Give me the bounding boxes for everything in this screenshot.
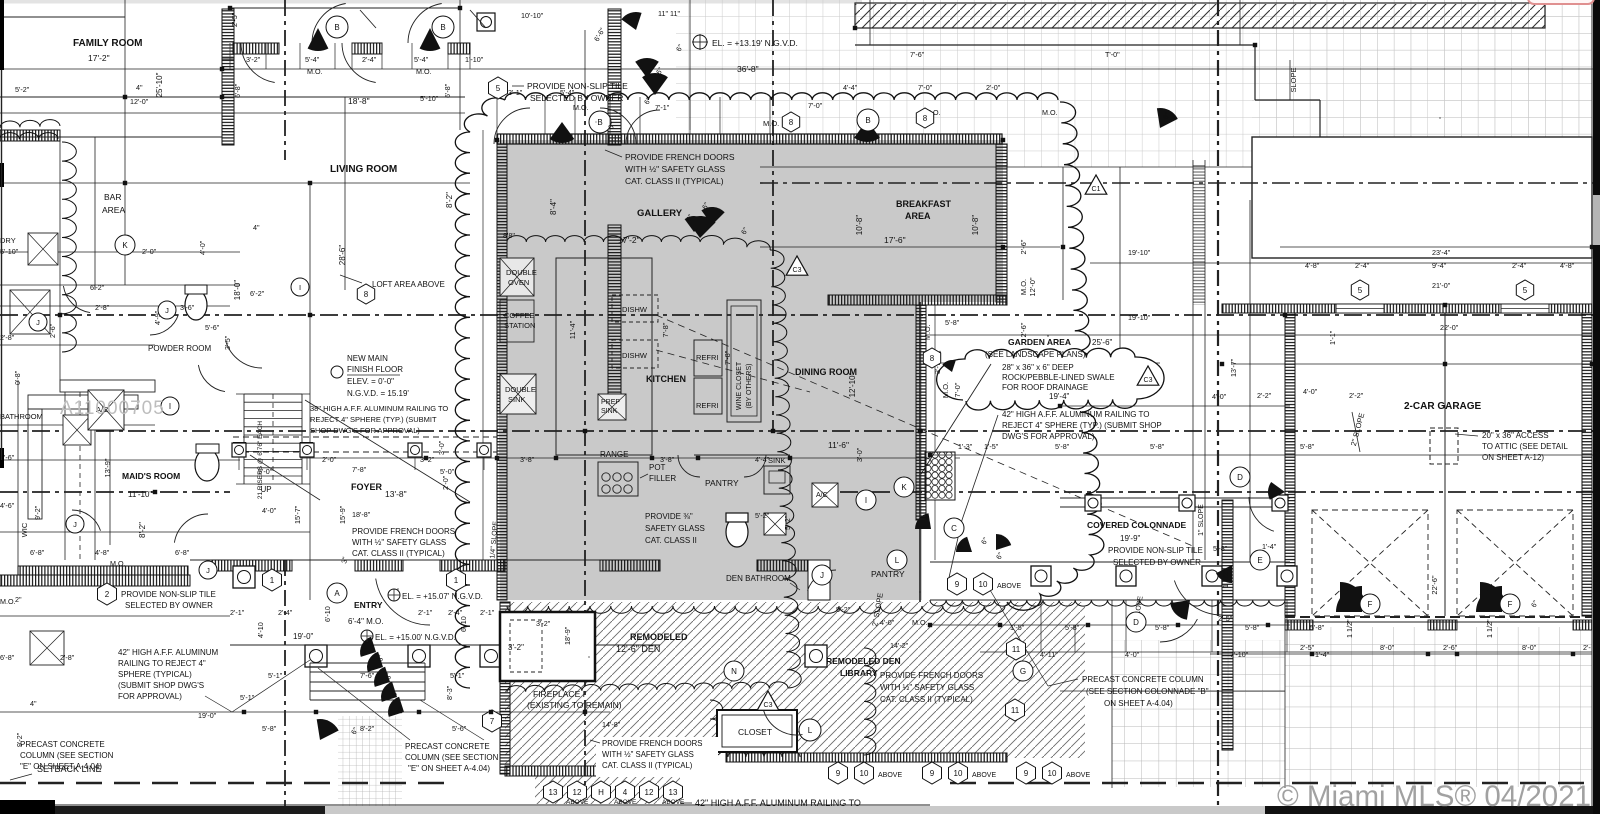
svg-text:14'-8": 14'-8" — [602, 720, 621, 729]
svg-text:5'-0": 5'-0" — [440, 467, 455, 476]
svg-text:PROVIDE FRENCH DOORS: PROVIDE FRENCH DOORS — [625, 152, 735, 162]
svg-text:13: 13 — [669, 788, 678, 797]
svg-text:2'-6": 2'-6" — [48, 323, 57, 338]
colonnade D door — [1160, 619, 1197, 642]
garden railing posts row — [1060, 497, 1290, 499]
svg-text:9: 9 — [930, 769, 935, 778]
svg-text:20" x 36" ACCESS: 20" x 36" ACCESS — [1482, 431, 1549, 440]
svg-text:C3: C3 — [764, 702, 773, 709]
svg-text:WITH ½" SAFETY GLASS: WITH ½" SAFETY GLASS — [602, 750, 694, 759]
svg-text:4'-6": 4'-6" — [0, 501, 15, 510]
svg-text:CAT. CLASS II (TYPICAL): CAT. CLASS II (TYPICAL) — [352, 549, 445, 558]
dash-dot centerlines horizontal — [0, 430, 1600, 432]
svg-text:3'-2": 3'-2" — [246, 55, 261, 64]
svg-text:5'-8": 5'-8" — [1055, 442, 1070, 451]
garage door bay X pattern left — [1312, 510, 1428, 616]
svg-text:4'-8": 4'-8" — [1305, 261, 1320, 270]
svg-text:2'-4": 2'-4" — [1512, 261, 1527, 270]
svg-text:BATHROOM: BATHROOM — [0, 412, 43, 421]
svg-text:5'-2": 5'-2" — [755, 511, 770, 520]
svg-text:15'-7": 15'-7" — [293, 505, 302, 524]
svg-text:ABOVE: ABOVE — [662, 799, 685, 806]
wall band: entry porch south wall — [0, 575, 190, 586]
svg-text:FAMILY ROOM: FAMILY ROOM — [73, 38, 142, 49]
revision cloud: big outer boundary top — [505, 93, 1058, 100]
svg-text:"E" ON SHEET A-4.04): "E" ON SHEET A-4.04) — [20, 762, 102, 771]
long thin horizontal drawing lines — [0, 16, 125, 18]
svg-text:B: B — [597, 118, 602, 127]
svg-text:D: D — [1237, 473, 1243, 482]
svg-text:1'-4": 1'-4" — [1315, 650, 1330, 659]
M.O. 9-10 above pantry — [919, 591, 921, 593]
svg-text:F: F — [1368, 600, 1373, 609]
svg-text:2'-5": 2'-5" — [1218, 614, 1233, 623]
bottom hexagon row — [544, 781, 563, 803]
bar X boxes — [63, 415, 91, 445]
svg-text:5: 5 — [1523, 286, 1528, 295]
svg-text:13'-9": 13'-9" — [103, 458, 112, 477]
svg-text:J: J — [73, 520, 77, 529]
svg-text:ABOVE: ABOVE — [614, 799, 637, 806]
leader lines precast column note left — [232, 660, 310, 712]
svg-text:2'-6": 2'-6" — [1019, 322, 1028, 337]
svg-text:ABOVE: ABOVE — [1066, 772, 1090, 779]
svg-text:4'-8": 4'-8" — [95, 548, 110, 557]
svg-text:(BY OTHERS): (BY OTHERS) — [746, 364, 753, 409]
svg-text:5'-8": 5'-8" — [1310, 623, 1325, 632]
svg-text:1'-10": 1'-10" — [465, 55, 484, 64]
wall band: kitchen west wall — [497, 144, 507, 600]
svg-text:5'-1": 5'-1" — [240, 693, 255, 702]
svg-text:4'-4": 4'-4" — [755, 455, 770, 464]
washer dryer — [28, 233, 58, 265]
svg-text:K: K — [122, 241, 128, 250]
svg-text:PRECAST CONCRETE: PRECAST CONCRETE — [405, 742, 490, 751]
svg-text:FINISH FLOOR: FINISH FLOOR — [347, 365, 403, 374]
door swings top wing — [241, 43, 275, 83]
svg-text:AREA: AREA — [905, 211, 931, 221]
svg-text:2": 2" — [15, 595, 22, 604]
svg-text:5: 5 — [1358, 286, 1363, 295]
svg-text:3'-8": 3'-8" — [660, 455, 675, 464]
svg-text:L: L — [808, 726, 813, 735]
top dim verticals — [229, 43, 231, 69]
stair center dashed — [272, 394, 274, 484]
svg-text:3'-2": 3'-2" — [536, 619, 551, 628]
scrollbar right — [1593, 0, 1600, 814]
a/c closet den — [812, 483, 838, 507]
svg-text:19'-0": 19'-0" — [293, 632, 314, 641]
wine closet — [727, 300, 761, 422]
svg-text:6'-8": 6'-8" — [233, 83, 242, 98]
svg-text:A: A — [334, 589, 340, 598]
svg-text:ENTRY: ENTRY — [354, 600, 383, 610]
svg-text:B: B — [865, 116, 870, 125]
svg-text:23'-4": 23'-4" — [1432, 248, 1451, 257]
garage west door D — [1249, 497, 1274, 531]
svg-text:EL. = +15.07' N.G.V.D.: EL. = +15.07' N.G.V.D. — [402, 592, 483, 601]
svg-text:NEW MAIN: NEW MAIN — [347, 354, 388, 363]
bar area counters — [28, 395, 138, 409]
svg-text:EL. = +15.00' N.G.V.D.: EL. = +15.00' N.G.V.D. — [375, 633, 456, 642]
svg-text:PANTRY: PANTRY — [871, 569, 905, 579]
svg-text:8'-2": 8'-2" — [138, 522, 147, 538]
svg-text:10'-8": 10'-8" — [855, 215, 864, 236]
svg-text:ON SHEET A-4.04): ON SHEET A-4.04) — [1104, 699, 1173, 708]
entry columns — [233, 566, 255, 588]
svg-text:8: 8 — [789, 118, 794, 127]
revision cloud: closet left — [710, 700, 800, 757]
svg-text:A/C: A/C — [816, 492, 828, 499]
svg-text:REMODELED DEN: REMODELED DEN — [826, 656, 901, 666]
svg-text:7'-0": 7'-0" — [808, 101, 823, 110]
svg-text:10'-10": 10'-10" — [521, 11, 544, 20]
svg-text:7'-8": 7'-8" — [661, 322, 670, 337]
svg-text:DWG'S FOR APPROVAL): DWG'S FOR APPROVAL) — [1002, 432, 1095, 441]
svg-text:ELEV. = 0'-0": ELEV. = 0'-0" — [347, 377, 394, 386]
svg-text:4: 4 — [623, 788, 628, 797]
svg-text:7'-8": 7'-8" — [723, 350, 732, 365]
svg-text:2'-1": 2'-1" — [230, 608, 245, 617]
svg-text:4'-0": 4'-0" — [880, 618, 895, 627]
shaded renovated floor area (gallery/breakfast/kitchen/dining) — [497, 140, 1003, 600]
svg-text:6'-2": 6'-2" — [90, 283, 105, 292]
hatched wall stub right of closet — [1524, 627, 1592, 787]
svg-text:5'-8": 5'-8" — [1300, 442, 1315, 451]
svg-text:REJECT 4" SPHERE (TYP.) (SUBMI: REJECT 4" SPHERE (TYP.) (SUBMIT — [310, 415, 437, 424]
svg-text:M.O.: M.O. — [1042, 108, 1058, 117]
revision cloud: colonnade bumps — [930, 600, 1285, 606]
svg-text:SPHERE (TYPICAL): SPHERE (TYPICAL) — [118, 670, 192, 679]
svg-text:RAILING TO REJECT 4": RAILING TO REJECT 4" — [118, 659, 206, 668]
svg-text:10'-8": 10'-8" — [971, 215, 980, 236]
svg-text:1: 1 — [270, 576, 275, 585]
svg-text:2'-1": 2'-1" — [418, 608, 433, 617]
wall band: left wing west windows — [0, 130, 60, 141]
kitchen sink — [764, 466, 790, 494]
svg-text:7'-0": 7'-0" — [953, 382, 962, 397]
svg-text:6'-2": 6'-2" — [250, 289, 265, 298]
svg-text:PRECAST CONCRETE COLUMN: PRECAST CONCRETE COLUMN — [1082, 675, 1204, 684]
garage door sills — [1285, 620, 1313, 630]
svg-text:PANTRY: PANTRY — [705, 478, 739, 488]
svg-text:18'-8": 18'-8" — [352, 510, 371, 519]
svg-text:13'-7": 13'-7" — [1229, 358, 1238, 377]
svg-text:17'-2": 17'-2" — [618, 235, 640, 245]
svg-text:BREAKFAST: BREAKFAST — [896, 199, 952, 209]
svg-text:4'-4": 4'-4" — [843, 83, 858, 92]
svg-text:2'-6": 2'-6" — [1443, 643, 1458, 652]
svg-text:18'-0": 18'-0" — [233, 280, 242, 301]
svg-text:11'-4": 11'-4" — [568, 320, 577, 339]
svg-text:4'-10: 4'-10 — [256, 622, 265, 638]
svg-text:1'-4": 1'-4" — [1262, 542, 1277, 551]
left edge black bar middle — [0, 163, 4, 187]
svg-text:7'-6": 7'-6" — [360, 671, 375, 680]
svg-text:SELECTED BY OWNER: SELECTED BY OWNER — [125, 601, 213, 610]
door arrows top — [360, 10, 376, 28]
svg-text:5'-8": 5'-8" — [1155, 623, 1170, 632]
wall band: breakfast south wall — [828, 295, 1007, 305]
svg-text:8: 8 — [364, 290, 369, 299]
svg-text:1'-1": 1'-1" — [1328, 330, 1337, 345]
svg-text:2'-4": 2'-4" — [278, 608, 293, 617]
svg-text:DISHW: DISHW — [622, 351, 648, 360]
bottom black bar right — [1265, 806, 1600, 814]
svg-text:KITCHEN: KITCHEN — [646, 374, 686, 384]
svg-text:4'-9": 4'-9" — [153, 310, 162, 325]
svg-text:3'-6": 3'-6" — [180, 303, 195, 312]
svg-text:LIVING ROOM: LIVING ROOM — [330, 164, 397, 175]
svg-text:LIBRARY: LIBRARY — [840, 668, 878, 678]
vanity — [764, 513, 786, 535]
wall band: stair core vertical — [608, 9, 621, 145]
svg-text:6'-8": 6'-8" — [443, 83, 452, 98]
svg-text:12'-6" DEN: 12'-6" DEN — [616, 644, 660, 654]
svg-text:ABOVE: ABOVE — [997, 583, 1021, 590]
garage south wall dashed — [1285, 616, 1592, 618]
svg-text:12: 12 — [645, 788, 654, 797]
svg-text:2'-2": 2'-2" — [1257, 391, 1272, 400]
svg-text:8'-2": 8'-2" — [445, 192, 454, 208]
svg-text:DEN BATHROOM: DEN BATHROOM — [726, 574, 791, 583]
shower grid den bath — [808, 560, 830, 600]
svg-text:4'-11": 4'-11" — [1040, 650, 1058, 659]
hatched den-bath/closet strip right — [1007, 602, 1085, 758]
svg-text:9: 9 — [955, 580, 960, 589]
svg-text:8: 8 — [930, 354, 935, 363]
svg-text:21'-0": 21'-0" — [1432, 281, 1451, 290]
svg-text:9'-4": 9'-4" — [1432, 261, 1447, 270]
svg-text:3'-8": 3'-8" — [520, 455, 535, 464]
bottom black bar left — [0, 800, 55, 814]
svg-text:13: 13 — [549, 788, 558, 797]
revision cloud: den top edge — [507, 606, 1005, 613]
svg-text:5'-6": 5'-6" — [452, 724, 467, 733]
revision cloud: bar area top — [0, 133, 58, 139]
svg-text:8'-0": 8'-0" — [1522, 643, 1537, 652]
svg-text:PROVIDE NON-SLIP TILE: PROVIDE NON-SLIP TILE — [1108, 546, 1203, 555]
svg-text:25'-10": 25'-10" — [155, 72, 164, 97]
wall band: family room / stair hall vertical — [222, 9, 234, 59]
breakfast window wedges — [854, 120, 880, 142]
svg-text:F: F — [1508, 600, 1513, 609]
svg-text:5'-4": 5'-4" — [305, 55, 320, 64]
svg-text:PROVIDE FRENCH DOORS: PROVIDE FRENCH DOORS — [602, 739, 703, 748]
svg-text:7'-1": 7'-1" — [655, 103, 670, 112]
svg-text:10: 10 — [1048, 769, 1057, 778]
svg-text:28" x 36" x 6" DEEP: 28" x 36" x 6" DEEP — [1002, 363, 1074, 372]
svg-text:36'-8": 36'-8" — [737, 64, 759, 74]
svg-text:"E" ON SHEET A-4.04): "E" ON SHEET A-4.04) — [408, 764, 490, 773]
svg-text:42" HIGH A.F.F. ALUMINUM RAILI: 42" HIGH A.F.F. ALUMINUM RAILING TO — [1002, 410, 1149, 419]
svg-text:4": 4" — [136, 83, 143, 92]
svg-text:19'-0": 19'-0" — [198, 711, 217, 720]
svg-text:M.O.: M.O. — [0, 597, 16, 606]
svg-text:4": 4" — [253, 223, 260, 232]
svg-text:2'-4": 2'-4" — [448, 608, 463, 617]
svg-text:FOR APPROVAL): FOR APPROVAL) — [118, 692, 182, 701]
wall band: garage east wall — [1582, 313, 1592, 616]
dash-dot centerlines vertical — [284, 0, 286, 160]
svg-text:C3: C3 — [793, 267, 802, 274]
stair treads — [244, 393, 302, 395]
wall band: garage north wall — [1222, 304, 1592, 313]
svg-text:4'-8": 4'-8" — [1560, 261, 1575, 270]
pink pill top right — [1528, 0, 1594, 4]
svg-text:CAT. CLASS II (TYPICAL): CAT. CLASS II (TYPICAL) — [602, 761, 693, 770]
svg-text:11'-6": 11'-6" — [828, 440, 849, 450]
svg-text:I: I — [299, 283, 301, 292]
svg-text:M.O.: M.O. — [416, 67, 432, 76]
svg-text:22'-6": 22'-6" — [1430, 575, 1439, 594]
hatched roof band top — [855, 4, 1545, 28]
svg-text:PROVIDE FRENCH DOORS: PROVIDE FRENCH DOORS — [352, 527, 455, 536]
svg-text:28'-6": 28'-6" — [338, 245, 347, 266]
svg-text:19'-4": 19'-4" — [1049, 392, 1070, 401]
svg-text:6'-8": 6'-8" — [30, 548, 45, 557]
revision cloud: big outer boundary left side — [455, 98, 505, 688]
prep sink box — [598, 394, 626, 420]
svg-text:10: 10 — [860, 769, 869, 778]
svg-text:3'-5": 3'-5" — [223, 335, 232, 350]
svg-text:42" HIGH A.F.F. ALUMINUM: 42" HIGH A.F.F. ALUMINUM — [118, 648, 219, 657]
svg-text:REMODELED: REMODELED — [630, 632, 688, 642]
svg-text:M.O.: M.O. — [110, 559, 126, 568]
svg-text:5'-1": 5'-1" — [268, 671, 283, 680]
stair rail diagonal — [305, 400, 470, 502]
svg-text:8'-3": 8'-3" — [445, 685, 454, 700]
svg-text:4'-0": 4'-0" — [262, 506, 277, 515]
svg-text:4'-0": 4'-0" — [1303, 387, 1318, 396]
svg-text:7'-0": 7'-0" — [918, 83, 933, 92]
dining dashed diagonals — [656, 315, 1195, 547]
svg-text:J: J — [165, 306, 169, 315]
svg-text:6'-10: 6'-10 — [459, 616, 468, 632]
closet box — [717, 710, 797, 752]
svg-text:SINK: SINK — [601, 408, 618, 415]
page top edge shading — [0, 0, 862, 4]
white backing bottom french doors note — [596, 737, 718, 777]
svg-text:J: J — [36, 318, 40, 327]
E door left garage — [1174, 581, 1222, 616]
svg-text:SELECTED BY OWNER: SELECTED BY OWNER — [530, 93, 623, 103]
svg-text:5'-2": 5'-2" — [836, 605, 851, 614]
svg-text:B: B — [440, 23, 445, 32]
den west wall band — [500, 602, 510, 774]
stair newel posts — [233, 442, 246, 455]
svg-text:CAT. CLASS II (TYPICAL): CAT. CLASS II (TYPICAL) — [625, 176, 724, 186]
kitchen island outline — [556, 258, 652, 455]
svg-text:0'-8": 0'-8" — [13, 370, 22, 385]
svg-text:SINK: SINK — [508, 395, 526, 404]
powder room door — [226, 342, 262, 368]
small door arcs left wing — [63, 286, 90, 313]
colonnade band — [930, 561, 1290, 563]
svg-text:5'-1": 5'-1" — [450, 671, 465, 680]
svg-text:G: G — [1020, 667, 1026, 676]
svg-text:2'-4": 2'-4" — [1355, 261, 1370, 270]
svg-text:4'-0": 4'-0" — [198, 240, 207, 255]
svg-text:COLUMN (SEE SECTION: COLUMN (SEE SECTION — [20, 751, 114, 760]
svg-text:T'-0": T'-0" — [1105, 50, 1120, 59]
svg-text:5'-8": 5'-8" — [262, 724, 277, 733]
svg-text:12'-0": 12'-0" — [130, 97, 149, 106]
svg-text:19'-9": 19'-9" — [1120, 534, 1141, 543]
svg-text:1'-3": 1'-3" — [958, 442, 973, 451]
double sink box — [500, 374, 536, 414]
svg-text:8'-2": 8'-2" — [360, 724, 375, 733]
svg-text:6'-8": 6'-8" — [175, 548, 190, 557]
svg-text:9: 9 — [1024, 769, 1029, 778]
svg-text:(EXISTING TO REMAIN): (EXISTING TO REMAIN) — [527, 700, 622, 710]
svg-text:GARDEN AREA: GARDEN AREA — [1008, 337, 1071, 347]
svg-text:7'-6": 7'-6" — [910, 50, 925, 59]
svg-text:10: 10 — [979, 580, 988, 589]
wall band: den south wall — [505, 766, 682, 776]
svg-text:2'-4": 2'-4" — [362, 55, 377, 64]
svg-text:POWDER ROOM: POWDER ROOM — [148, 344, 211, 353]
svg-text:1 1/2": 1 1/2" — [1221, 569, 1230, 588]
svg-text:12'-10": 12'-10" — [848, 372, 857, 397]
revision cloud: bar area right — [62, 142, 76, 352]
svg-text:7'-10": 7'-10" — [1230, 650, 1249, 659]
svg-text:MAID'S ROOM: MAID'S ROOM — [122, 471, 180, 481]
svg-text:CAT. CLASS II: CAT. CLASS II — [645, 536, 697, 545]
svg-text:2'-0": 2'-0" — [986, 83, 1001, 92]
extra left-wing reference lines — [0, 136, 222, 138]
svg-text:STATION: STATION — [504, 321, 535, 330]
svg-text:A11000705: A11000705 — [60, 398, 165, 419]
svg-text:11: 11 — [1012, 645, 1021, 654]
svg-text:5'-8": 5'-8" — [1065, 623, 1080, 632]
svg-text:SINK: SINK — [768, 456, 786, 465]
svg-text:REJECT 4" SPHERE (TYP.) (SUBMI: REJECT 4" SPHERE (TYP.) (SUBMIT SHOP — [1002, 421, 1162, 430]
garage roof white rectangle — [1252, 137, 1592, 258]
left edge black bar top — [0, 0, 4, 70]
svg-text:(SUBMIT SHOP DWG'S: (SUBMIT SHOP DWG'S — [118, 681, 204, 690]
svg-text:5'-8": 5'-8" — [1245, 623, 1260, 632]
svg-text:11" 11": 11" 11" — [658, 9, 680, 18]
svg-text:I: I — [865, 496, 867, 505]
svg-text:C1: C1 — [1092, 186, 1101, 193]
svg-text:4'-0": 4'-0" — [1212, 392, 1227, 401]
revision cloud: kitchen top — [507, 235, 770, 250]
svg-text:N.G.V.D. = 15.19': N.G.V.D. = 15.19' — [347, 389, 409, 398]
svg-text:2'-8": 2'-8" — [60, 653, 75, 662]
svg-text:ABOVE: ABOVE — [878, 772, 902, 779]
svg-text:SHOP DWG'S FOR APPROVAL): SHOP DWG'S FOR APPROVAL) — [310, 426, 420, 435]
garden west wall band — [916, 305, 926, 520]
svg-text:COLUMN (SEE SECTION: COLUMN (SEE SECTION — [405, 753, 499, 762]
svg-text:2'-5": 2'-5" — [1300, 643, 1315, 652]
tile grid: garage apron bottom right — [1285, 627, 1592, 787]
powder room toilet — [195, 449, 219, 481]
svg-text:14'-2": 14'-2" — [890, 641, 909, 650]
svg-text:5'-4": 5'-4" — [414, 55, 429, 64]
svg-text:B: B — [334, 23, 339, 32]
svg-text:(SEE LANDSCAPE PLANS): (SEE LANDSCAPE PLANS) — [985, 350, 1086, 359]
entry stepped wing walls — [360, 637, 376, 657]
svg-text:WITH ½" SAFETY GLASS: WITH ½" SAFETY GLASS — [352, 538, 446, 547]
rock swale hatch square — [925, 452, 955, 500]
revision cloud: garden note blob — [937, 348, 1164, 410]
svg-text:DRY: DRY — [0, 236, 16, 245]
svg-text:9'-2": 9'-2" — [15, 732, 24, 747]
svg-text:DOUBLE: DOUBLE — [506, 268, 537, 277]
foyer railing posts — [233, 436, 497, 438]
svg-text:2'-: 2'- — [1583, 643, 1591, 652]
